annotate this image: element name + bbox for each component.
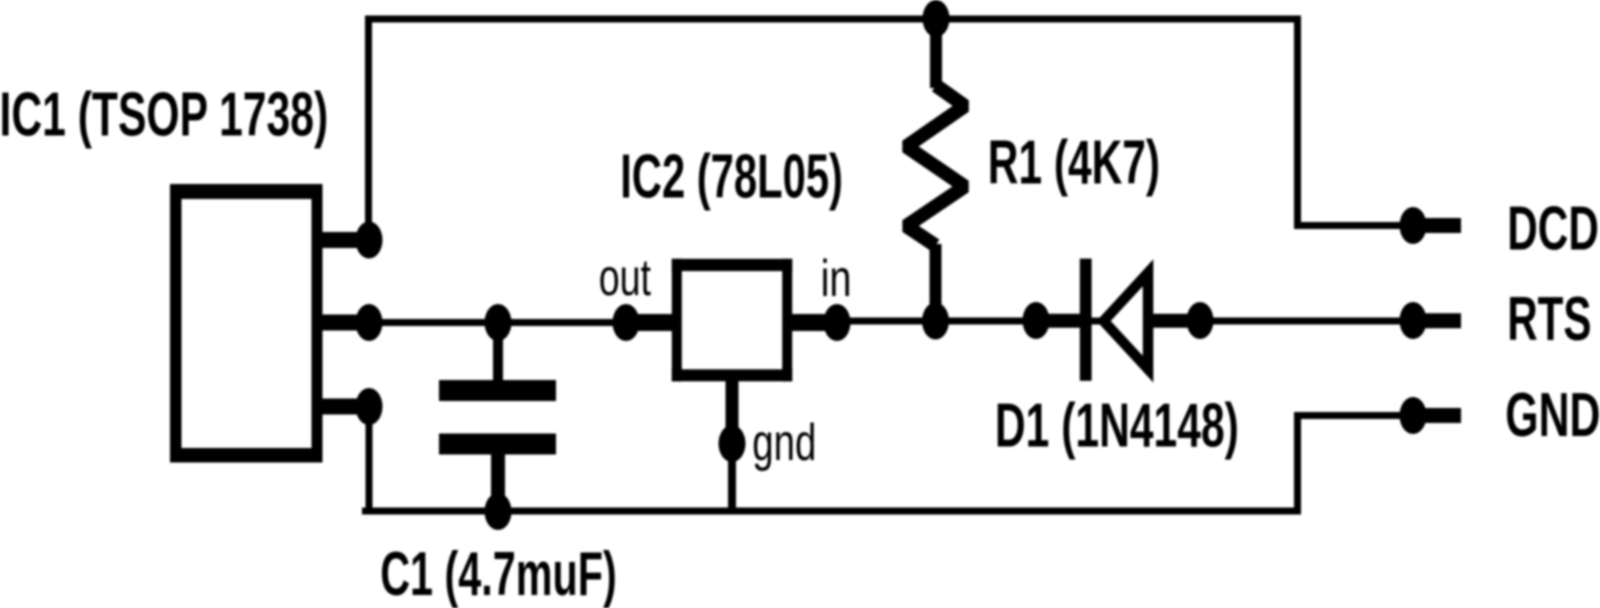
- svg-text:D1 (1N4148): D1 (1N4148): [995, 392, 1239, 461]
- svg-text:IC2 (78L05): IC2 (78L05): [620, 142, 843, 211]
- svg-text:GND: GND: [1505, 381, 1600, 450]
- svg-text:in: in: [821, 249, 852, 307]
- svg-text:C1 (4.7muF): C1 (4.7muF): [380, 540, 617, 608]
- svg-text:gnd: gnd: [752, 413, 816, 471]
- svg-text:RTS: RTS: [1507, 285, 1591, 354]
- svg-text:out: out: [599, 248, 652, 306]
- svg-text:R1 (4K7): R1 (4K7): [988, 128, 1160, 197]
- svg-text:IC1 (TSOP 1738): IC1 (TSOP 1738): [0, 81, 328, 150]
- svg-text:DCD: DCD: [1507, 195, 1599, 264]
